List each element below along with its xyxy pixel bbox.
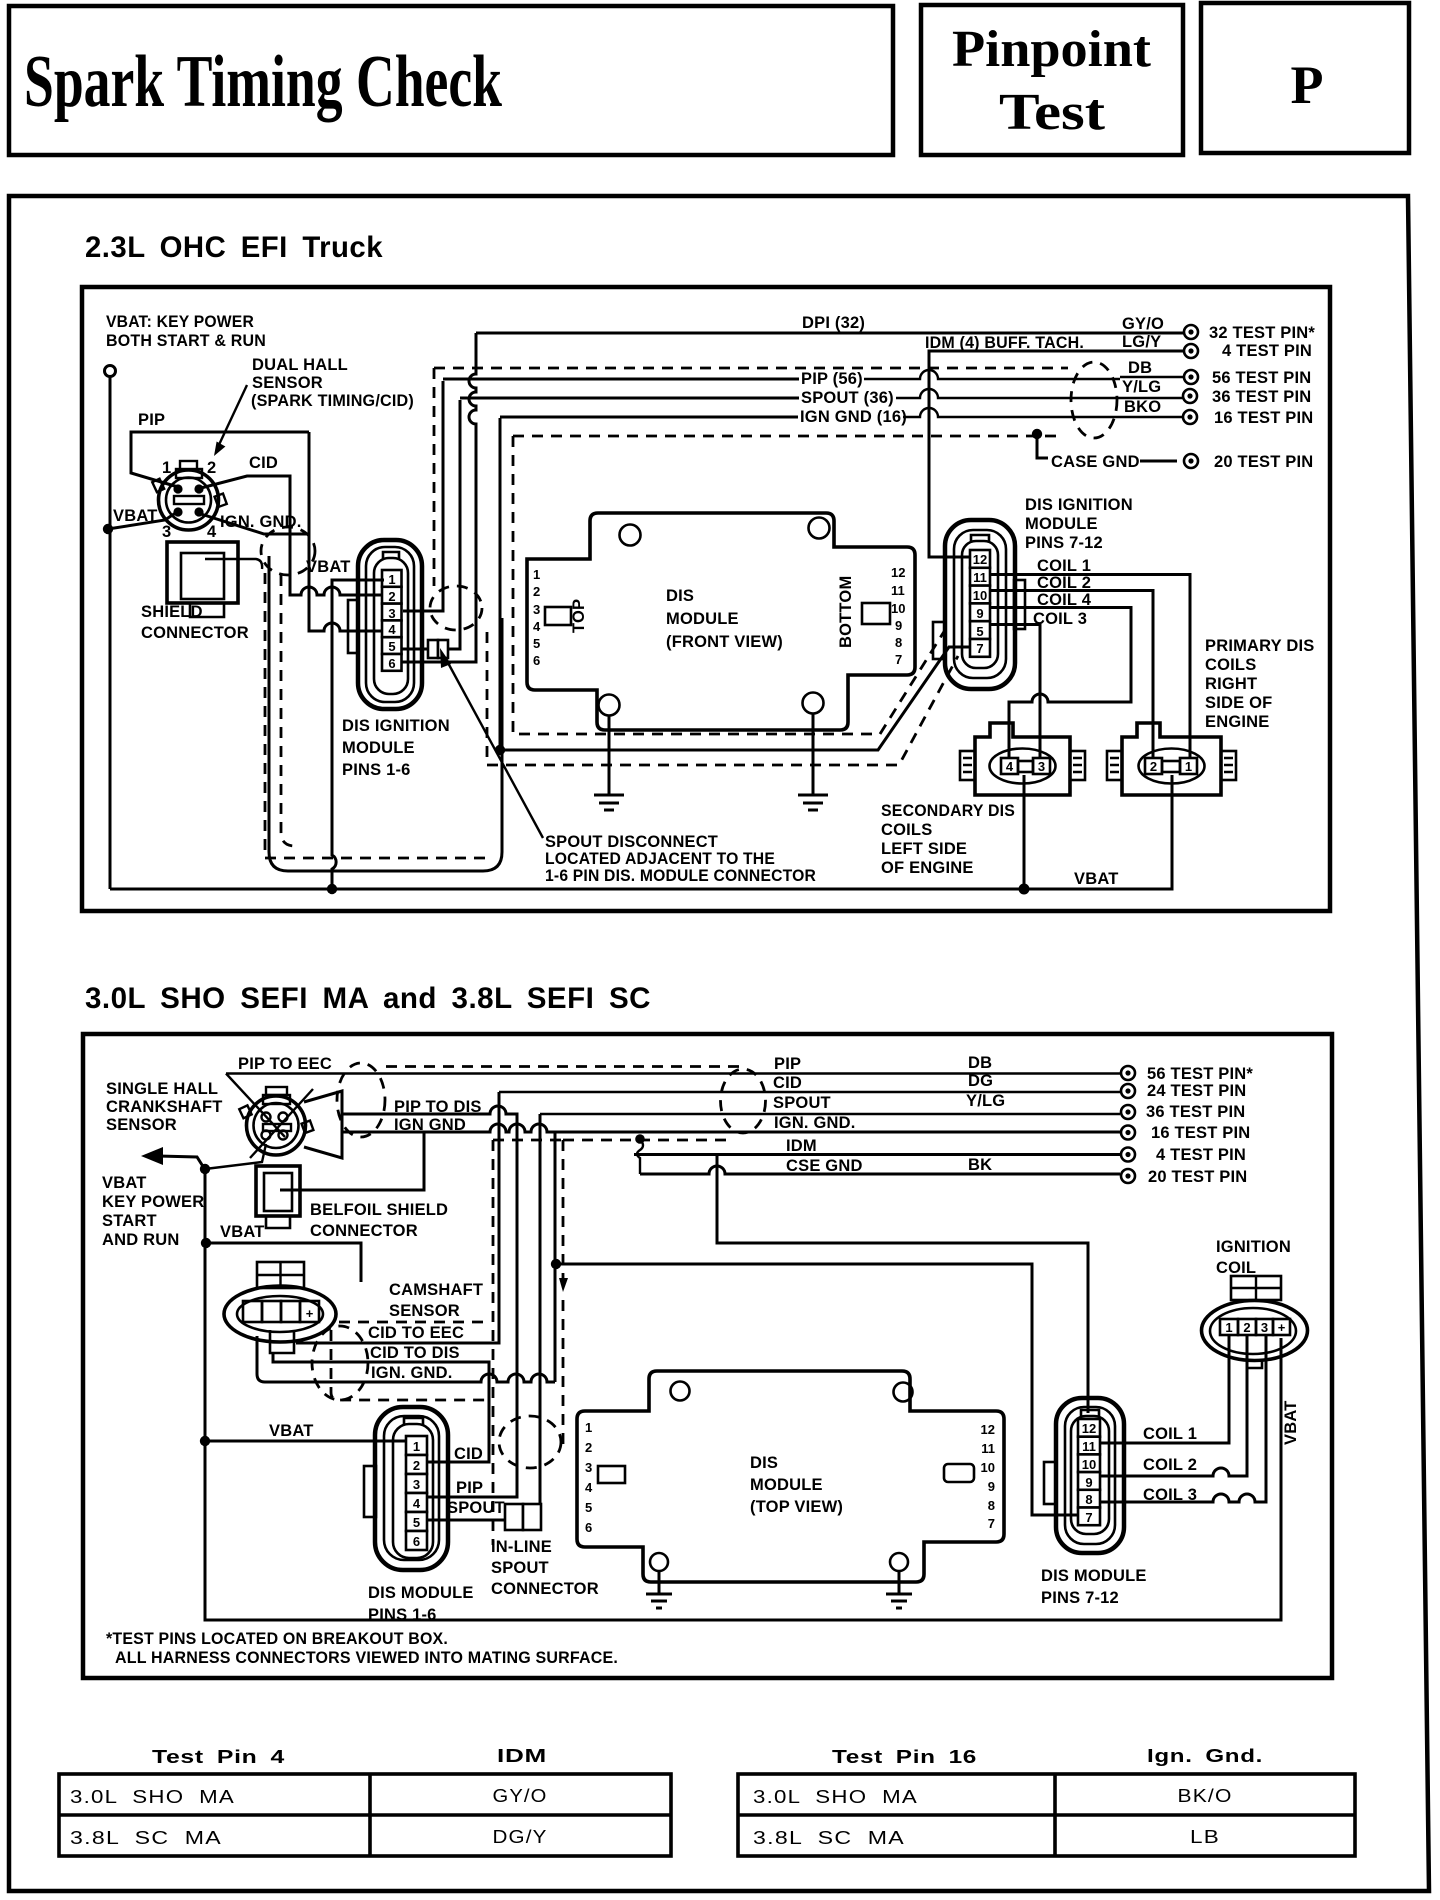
svg-text:SENSOR: SENSOR xyxy=(106,1116,177,1134)
node VBAT junction xyxy=(103,524,113,534)
svg-text:(SPARK TIMING/CID): (SPARK TIMING/CID) xyxy=(251,392,414,410)
test pin 4 xyxy=(1184,344,1198,358)
svg-text:VBAT: VBAT xyxy=(1282,1401,1300,1446)
label DIS IGNITION MODULE PINS 1-6 xyxy=(342,717,450,779)
svg-text:4: 4 xyxy=(1006,759,1014,774)
svg-text:11: 11 xyxy=(981,1441,995,1456)
label SECONDARY DIS COILS xyxy=(881,802,1015,877)
svg-text:CID: CID xyxy=(454,1445,483,1463)
connector body trapezoid xyxy=(304,1091,342,1158)
svg-text:Y/LG: Y/LG xyxy=(966,1092,1005,1110)
svg-text:COILS: COILS xyxy=(1205,656,1256,674)
svg-text:12: 12 xyxy=(981,1422,995,1437)
svg-text:PIP: PIP xyxy=(138,411,165,429)
svg-text:GY/O: GY/O xyxy=(493,1786,548,1806)
svg-text:CONNECTOR: CONNECTOR xyxy=(491,1580,599,1598)
svg-text:4: 4 xyxy=(585,1480,593,1495)
svg-text:VBAT: VBAT xyxy=(220,1223,265,1241)
wire IDM hook xyxy=(637,1139,643,1174)
module DIS front view xyxy=(527,513,915,730)
svg-text:P: P xyxy=(1291,55,1324,115)
svg-text:16 TEST PIN: 16 TEST PIN xyxy=(1151,1124,1250,1142)
wire IGN GND sensor pin4 xyxy=(201,514,309,534)
svg-text:6: 6 xyxy=(533,653,540,668)
node VBAT bottom junction xyxy=(327,884,337,894)
wire sensor cross diagonal xyxy=(250,1089,313,1158)
svg-text:MODULE: MODULE xyxy=(750,1476,823,1494)
wire vertical B to pin4 xyxy=(309,432,384,631)
svg-text:2: 2 xyxy=(388,589,395,604)
svg-text:5: 5 xyxy=(976,624,983,639)
svg-text:DUAL HALL: DUAL HALL xyxy=(252,356,348,374)
wire VBAT bottom rail xyxy=(110,775,1172,889)
svg-text:+: + xyxy=(1278,1320,1286,1335)
svg-text:PINS 7-12: PINS 7-12 xyxy=(1025,534,1103,552)
connector DIS module pins 1-6 d2 xyxy=(364,1407,448,1570)
test pin 16 xyxy=(1183,410,1197,424)
svg-text:START: START xyxy=(102,1212,157,1230)
svg-text:COIL 1: COIL 1 xyxy=(1143,1425,1197,1443)
label DIS MODULE PINS 7-12 d2 xyxy=(1041,1567,1147,1607)
svg-text:DG: DG xyxy=(968,1072,993,1090)
svg-text:56 TEST PIN*: 56 TEST PIN* xyxy=(1147,1065,1253,1083)
wire PIP diagonal through sensor xyxy=(226,1074,285,1138)
svg-text:4: 4 xyxy=(388,622,396,637)
dashed ellipse camshaft f xyxy=(312,1326,368,1400)
test pin 36 xyxy=(1183,389,1197,403)
wire IGN GND (16) row xyxy=(500,416,798,419)
svg-text:CONNECTOR: CONNECTOR xyxy=(310,1222,418,1240)
dashed case line d2 xyxy=(493,1139,563,1142)
svg-text:2: 2 xyxy=(413,1458,420,1473)
svg-text:IDM: IDM xyxy=(786,1137,817,1155)
node IDM shield dot xyxy=(635,1134,645,1144)
svg-text:24 TEST PIN: 24 TEST PIN xyxy=(1147,1082,1246,1100)
svg-text:3: 3 xyxy=(533,602,540,617)
diagram 2 border box xyxy=(83,1034,1332,1678)
node IGN GND junction xyxy=(495,745,505,755)
svg-text:BOTH START & RUN: BOTH START & RUN xyxy=(106,332,266,350)
svg-text:3.0L SHO MA: 3.0L SHO MA xyxy=(70,1787,235,1807)
wire CID TO DIS xyxy=(273,1352,489,1462)
svg-text:3: 3 xyxy=(413,1477,420,1492)
svg-text:GY/O: GY/O xyxy=(1122,315,1164,333)
svg-text:6: 6 xyxy=(585,1520,592,1535)
svg-text:7: 7 xyxy=(976,641,983,656)
wire CID TO EEC vertical and row xyxy=(499,1091,1120,1093)
label DUAL HALL SENSOR xyxy=(251,356,414,410)
dashed camshaft harness box G xyxy=(339,1321,491,1324)
svg-text:5: 5 xyxy=(533,636,540,651)
wire DPI pin6 xyxy=(402,333,476,662)
ground module d2 right xyxy=(886,1571,912,1608)
svg-text:PINS 7-12: PINS 7-12 xyxy=(1041,1589,1119,1607)
svg-text:BK/O: BK/O xyxy=(1178,1786,1233,1806)
svg-text:ENGINE: ENGINE xyxy=(1205,713,1269,731)
wire belfoil drain xyxy=(280,1132,424,1190)
svg-text:MODULE: MODULE xyxy=(342,739,415,757)
wire VBAT to pin1 xyxy=(332,580,384,889)
svg-text:11: 11 xyxy=(891,583,905,598)
wire VBAT left rail xyxy=(109,377,112,889)
svg-text:11: 11 xyxy=(973,570,987,585)
svg-text:Y/LG: Y/LG xyxy=(1122,378,1161,396)
svg-text:IGNITION: IGNITION xyxy=(1216,1238,1291,1256)
svg-text:VBAT: VBAT xyxy=(1074,870,1119,888)
node VBAT dot3 xyxy=(200,1436,210,1446)
sensor single hall crankshaft xyxy=(239,1087,313,1155)
label SPOUT DISCONNECT xyxy=(545,833,816,885)
svg-text:IGN GND: IGN GND xyxy=(394,1116,466,1134)
wire IDM row xyxy=(634,1153,1120,1156)
svg-text:32 TEST PIN*: 32 TEST PIN* xyxy=(1209,324,1315,342)
label CAMSHAFT SENSOR xyxy=(389,1281,483,1320)
svg-text:2: 2 xyxy=(585,1440,592,1455)
svg-text:OF ENGINE: OF ENGINE xyxy=(881,859,974,877)
wire IGN GND(16) pin7 xyxy=(499,418,502,745)
footnote xyxy=(106,1630,618,1667)
svg-text:PIP TO DIS: PIP TO DIS xyxy=(394,1098,482,1116)
svg-text:Pinpoint: Pinpoint xyxy=(952,21,1152,78)
svg-text:3.0L SHO SEFI MA and 3.8L SEFI: 3.0L SHO SEFI MA and 3.8L SEFI SC xyxy=(85,982,651,1015)
wire PIP TO DIS xyxy=(342,1106,517,1497)
svg-text:VBAT: VBAT xyxy=(269,1422,314,1440)
svg-text:COIL 4: COIL 4 xyxy=(1037,591,1092,609)
svg-text:IGN. GND.: IGN. GND. xyxy=(371,1364,453,1382)
svg-text:BK: BK xyxy=(968,1156,992,1174)
node CASE GND dot xyxy=(1032,429,1042,439)
svg-text:1: 1 xyxy=(1225,1320,1232,1335)
wire SPOUT(36) pin5 with inline disconnect xyxy=(402,648,428,651)
svg-text:BKO: BKO xyxy=(1124,398,1161,416)
wire CASE GND xyxy=(1037,434,1048,458)
wire IGN GND branch to module xyxy=(554,1132,557,1382)
dashed vertical right with arrow xyxy=(562,1140,565,1278)
dashed harness box A xyxy=(434,367,1068,370)
connector in-line spout xyxy=(505,1504,541,1530)
dashed ellipse EEC connector xyxy=(1071,362,1117,438)
note VBAT: KEY POWER xyxy=(106,313,266,350)
svg-text:(FRONT VIEW): (FRONT VIEW) xyxy=(666,633,783,651)
wire COIL 1 d2 xyxy=(1100,1336,1229,1443)
svg-text:Spark Timing Check: Spark Timing Check xyxy=(24,41,503,123)
coil ignition xyxy=(1202,1276,1308,1368)
svg-text:DIS MODULE: DIS MODULE xyxy=(368,1584,474,1602)
wire CSE GND row xyxy=(640,1166,1120,1174)
svg-text:5: 5 xyxy=(413,1515,420,1530)
dashed ellipse takeout b xyxy=(430,586,482,630)
wire IGN GND camshaft row xyxy=(257,1336,555,1382)
svg-text:CONNECTOR: CONNECTOR xyxy=(141,624,249,642)
svg-text:CAMSHAFT: CAMSHAFT xyxy=(389,1281,483,1299)
svg-text:IGN. GND.: IGN. GND. xyxy=(774,1114,856,1132)
test pin 36 d2 xyxy=(1121,1105,1135,1119)
svg-text:PIP TO EEC: PIP TO EEC xyxy=(238,1055,332,1073)
svg-text:1: 1 xyxy=(1185,759,1192,774)
svg-text:2: 2 xyxy=(207,459,216,477)
svg-text:DIS IGNITION: DIS IGNITION xyxy=(1025,496,1133,514)
svg-text:8: 8 xyxy=(988,1498,995,1513)
wire COIL 3 xyxy=(990,625,1040,759)
svg-text:SPOUT (36): SPOUT (36) xyxy=(801,389,894,407)
svg-text:BELFOIL SHIELD: BELFOIL SHIELD xyxy=(310,1201,448,1219)
svg-text:4 TEST PIN: 4 TEST PIN xyxy=(1222,342,1312,360)
solid harness loop xyxy=(269,556,502,871)
svg-text:Test: Test xyxy=(999,84,1106,141)
svg-text:SPOUT: SPOUT xyxy=(773,1094,831,1112)
svg-text:PINS 1-6: PINS 1-6 xyxy=(342,761,411,779)
svg-text:12: 12 xyxy=(973,552,987,567)
arrow VBAT key power xyxy=(158,1156,204,1168)
svg-text:CID: CID xyxy=(249,454,278,472)
sensor camshaft xyxy=(224,1262,336,1353)
svg-text:36 TEST PIN: 36 TEST PIN xyxy=(1212,388,1311,406)
svg-text:SENSOR: SENSOR xyxy=(389,1302,460,1320)
node VBAT dot2 xyxy=(201,1238,211,1248)
wire IDM branch to pin 12 xyxy=(717,1155,1088,1414)
svg-text:SINGLE HALL: SINGLE HALL xyxy=(106,1080,218,1098)
wire VBAT rail d2 xyxy=(205,1169,1281,1620)
wire PIP (56) row xyxy=(443,378,799,381)
svg-text:8: 8 xyxy=(895,635,902,650)
svg-text:SIDE OF: SIDE OF xyxy=(1205,694,1272,712)
label IN-LINE SPOUT CONNECTOR xyxy=(491,1538,599,1598)
svg-text:9: 9 xyxy=(976,606,983,621)
wire VBAT to sensor pin3 xyxy=(108,512,177,529)
svg-text:9: 9 xyxy=(1085,1475,1092,1490)
svg-text:DIS IGNITION: DIS IGNITION xyxy=(342,717,450,735)
test pin 4 d2 xyxy=(1121,1148,1135,1162)
wire PIP TO EEC row xyxy=(226,1072,1120,1074)
label PRIMARY DIS COILS xyxy=(1205,637,1314,731)
svg-text:DB: DB xyxy=(968,1054,992,1072)
ground module right xyxy=(798,713,828,810)
wire COIL 2 xyxy=(990,591,1153,759)
wire VBAT to camshaft sensor xyxy=(206,1243,361,1282)
dashed ellipse EEC side e xyxy=(721,1069,766,1133)
svg-text:PIP: PIP xyxy=(456,1479,483,1497)
svg-text:5: 5 xyxy=(388,639,395,654)
node VBAT coil junction xyxy=(1019,884,1030,895)
svg-text:12: 12 xyxy=(1082,1421,1096,1436)
table test pin 4 xyxy=(59,1746,671,1856)
svg-text:SPOUT DISCONNECT: SPOUT DISCONNECT xyxy=(545,833,718,851)
svg-text:COIL 3: COIL 3 xyxy=(1143,1486,1197,1504)
svg-text:1: 1 xyxy=(162,459,171,477)
connector belfoil shield xyxy=(256,1166,300,1228)
svg-text:56 TEST PIN: 56 TEST PIN xyxy=(1212,369,1311,387)
test pin 32 xyxy=(1184,325,1198,339)
svg-text:2.3L OHC EFI Truck: 2.3L OHC EFI Truck xyxy=(85,231,383,264)
wire COIL 3 d2 xyxy=(1100,1336,1266,1502)
label VBAT KEY POWER START AND RUN xyxy=(102,1174,204,1249)
svg-text:COIL 2: COIL 2 xyxy=(1037,574,1091,592)
svg-text:IDM (4) BUFF. TACH.: IDM (4) BUFF. TACH. xyxy=(925,334,1084,352)
svg-text:11: 11 xyxy=(1082,1439,1096,1454)
label IGNITION COIL xyxy=(1216,1238,1291,1277)
svg-text:COILS: COILS xyxy=(881,821,932,839)
svg-text:COIL 3: COIL 3 xyxy=(1033,610,1087,628)
svg-text:3.0L SHO MA: 3.0L SHO MA xyxy=(753,1787,918,1807)
svg-text:7: 7 xyxy=(988,1516,995,1531)
svg-text:7: 7 xyxy=(895,652,902,667)
label DIS IGNITION MODULE PINS 7-12 xyxy=(1025,496,1133,552)
dashed vertical left xyxy=(492,1140,495,1545)
connector spout disconnect xyxy=(428,640,448,658)
wire coil vbat drop xyxy=(1023,775,1026,889)
svg-text:(TOP VIEW): (TOP VIEW) xyxy=(750,1498,843,1516)
svg-text:DIS: DIS xyxy=(666,587,694,605)
svg-text:10: 10 xyxy=(981,1460,995,1475)
wire PIP(56) pin3 xyxy=(403,381,443,611)
test pin 24 xyxy=(1121,1084,1135,1098)
svg-text:4 TEST PIN: 4 TEST PIN xyxy=(1156,1146,1246,1164)
svg-text:1: 1 xyxy=(585,1420,592,1435)
svg-text:4: 4 xyxy=(413,1496,421,1511)
svg-text:MODULE: MODULE xyxy=(666,610,739,628)
connector DIS module pins 7-12 d2 xyxy=(1044,1398,1124,1553)
dashed harness box B xyxy=(513,435,1064,438)
sensor dual hall (spark timing/CID) xyxy=(152,461,226,530)
wire VBAT to pin1 d2 xyxy=(205,1440,406,1443)
dashed sensor harness box D xyxy=(265,573,487,858)
svg-text:6: 6 xyxy=(413,1534,420,1549)
svg-text:SPOUT: SPOUT xyxy=(491,1559,549,1577)
svg-text:COIL 1: COIL 1 xyxy=(1037,557,1091,575)
wire VBAT to sensor xyxy=(205,1144,266,1169)
wire DPI (32) row xyxy=(476,332,1184,335)
svg-text:DIS: DIS xyxy=(750,1454,778,1472)
wire SPOUT (36) row xyxy=(460,397,799,400)
svg-text:3.8L SC MA: 3.8L SC MA xyxy=(70,1828,222,1848)
test pin 56 d2 xyxy=(1121,1066,1135,1080)
table test pin 16 xyxy=(738,1746,1355,1856)
label BELFOIL SHIELD CONNECTOR xyxy=(310,1201,448,1240)
svg-text:CRANKSHAFT: CRANKSHAFT xyxy=(106,1098,223,1116)
svg-text:DIS MODULE: DIS MODULE xyxy=(1041,1567,1147,1585)
svg-text:AND RUN: AND RUN xyxy=(102,1231,179,1249)
svg-text:KEY POWER: KEY POWER xyxy=(102,1193,204,1211)
svg-text:LEFT SIDE: LEFT SIDE xyxy=(881,840,967,858)
svg-text:IDM: IDM xyxy=(497,1746,547,1766)
connector primary DIS coil xyxy=(1107,723,1236,795)
svg-text:3: 3 xyxy=(585,1460,592,1475)
svg-text:Test Pin 16: Test Pin 16 xyxy=(832,1747,977,1767)
wire IDM (4) row from pin12 xyxy=(929,351,1184,557)
svg-text:9: 9 xyxy=(988,1479,995,1494)
label DIS MODULE PINS 1-6 xyxy=(368,1584,474,1624)
svg-text:1: 1 xyxy=(388,572,395,587)
svg-text:6: 6 xyxy=(388,656,395,671)
test pin 56 xyxy=(1184,370,1198,384)
test pin 20 d2 xyxy=(1121,1169,1135,1183)
module DIS top view xyxy=(577,1371,1004,1582)
svg-text:16 TEST PIN: 16 TEST PIN xyxy=(1214,409,1313,427)
svg-text:3: 3 xyxy=(1038,759,1045,774)
connector DIS module pins 7-12 xyxy=(933,520,1025,689)
svg-text:MODULE: MODULE xyxy=(1025,515,1098,533)
label SINGLE HALL CRANKSHAFT SENSOR xyxy=(106,1080,223,1134)
svg-text:20 TEST PIN: 20 TEST PIN xyxy=(1148,1168,1247,1186)
terminal VBAT open circle xyxy=(105,366,116,377)
connector secondary DIS coil xyxy=(960,723,1085,795)
dashed bundle line 2 xyxy=(487,632,958,765)
wire SPOUT vertical and row xyxy=(540,1113,1120,1115)
svg-text:ALL HARNESS CONNECTORS VIEWED: ALL HARNESS CONNECTORS VIEWED INTO MATIN… xyxy=(115,1649,618,1667)
arrow to sensor xyxy=(217,385,247,449)
test pin 20 xyxy=(1184,454,1198,468)
test pin 16 d2 xyxy=(1121,1126,1135,1140)
wire IGN GND to pin 7 xyxy=(555,1264,1078,1515)
svg-text:COIL: COIL xyxy=(1216,1259,1256,1277)
svg-text:CID TO DIS: CID TO DIS xyxy=(370,1344,460,1362)
svg-text:7: 7 xyxy=(1085,1510,1092,1525)
svg-text:3: 3 xyxy=(388,606,395,621)
svg-text:PIP: PIP xyxy=(774,1055,801,1073)
svg-text:12: 12 xyxy=(891,565,905,580)
svg-text:COIL 2: COIL 2 xyxy=(1143,1456,1197,1474)
svg-text:1: 1 xyxy=(533,567,540,582)
svg-text:10: 10 xyxy=(891,601,905,616)
svg-text:SHIELD: SHIELD xyxy=(141,603,203,621)
ground module d2 left xyxy=(646,1571,672,1608)
svg-text:LB: LB xyxy=(1190,1827,1220,1847)
svg-text:1: 1 xyxy=(413,1439,420,1454)
dashed top line d2 xyxy=(386,1065,741,1068)
svg-text:20 TEST PIN: 20 TEST PIN xyxy=(1214,453,1313,471)
arrow spout disconnect xyxy=(447,661,543,838)
svg-text:VBAT: KEY POWER: VBAT: KEY POWER xyxy=(106,313,254,331)
node IGN GND junction xyxy=(551,1259,561,1269)
svg-text:SECONDARY DIS: SECONDARY DIS xyxy=(881,802,1015,820)
svg-text:4: 4 xyxy=(207,523,217,541)
wire spout to pin 5 xyxy=(427,1519,505,1522)
svg-text:3.8L SC MA: 3.8L SC MA xyxy=(753,1828,905,1848)
svg-text:LG/Y: LG/Y xyxy=(1122,333,1161,351)
svg-text:DB: DB xyxy=(1128,359,1152,377)
svg-text:8: 8 xyxy=(1085,1492,1092,1507)
ground module left xyxy=(594,715,624,810)
svg-text:CSE GND: CSE GND xyxy=(786,1157,863,1175)
svg-text:PRIMARY DIS: PRIMARY DIS xyxy=(1205,637,1314,655)
svg-text:2: 2 xyxy=(1150,759,1157,774)
svg-text:VBAT: VBAT xyxy=(102,1174,147,1192)
svg-text:2: 2 xyxy=(1243,1320,1250,1335)
wire COIL 4 xyxy=(990,608,1131,759)
dashed ellipse sensor takeout d xyxy=(337,1063,385,1137)
shield connector xyxy=(167,542,262,617)
svg-text:+: + xyxy=(306,1306,314,1321)
svg-text:RIGHT: RIGHT xyxy=(1205,675,1257,693)
svg-text:1-6 PIN DIS. MODULE CONNECTOR: 1-6 PIN DIS. MODULE CONNECTOR xyxy=(545,867,816,885)
svg-text:*TEST PINS LOCATED ON BREAKOUT: *TEST PINS LOCATED ON BREAKOUT BOX. xyxy=(106,1630,448,1648)
svg-text:Ign. Gnd.: Ign. Gnd. xyxy=(1147,1746,1263,1766)
svg-text:CASE GND: CASE GND xyxy=(1051,453,1140,471)
svg-text:3: 3 xyxy=(162,523,171,541)
header title box xyxy=(9,6,893,155)
svg-text:SPOUT: SPOUT xyxy=(447,1499,505,1517)
svg-text:SENSOR: SENSOR xyxy=(252,374,323,392)
P box xyxy=(1201,3,1409,153)
wire COIL 1 xyxy=(990,575,1190,759)
svg-text:4: 4 xyxy=(533,619,541,634)
svg-text:LOCATED ADJACENT TO THE: LOCATED ADJACENT TO THE xyxy=(545,850,775,868)
dashed ellipse takeout c xyxy=(261,527,315,575)
svg-text:10: 10 xyxy=(1082,1457,1096,1472)
svg-text:CID TO EEC: CID TO EEC xyxy=(368,1324,464,1342)
svg-text:Test Pin 4: Test Pin 4 xyxy=(152,1747,285,1767)
wire CID from sensor pin2 to DIS pin2 xyxy=(201,476,384,595)
